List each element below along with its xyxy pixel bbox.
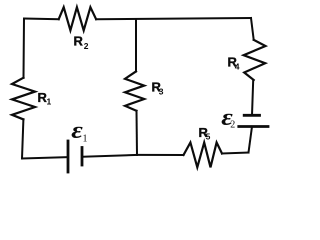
resistor R5 bbox=[184, 143, 223, 168]
battery E2 short plate bbox=[244, 114, 259, 117]
wire middle vertical lower bbox=[136, 111, 139, 155]
resistor R4 bbox=[244, 40, 266, 80]
node bottom middle junction bbox=[137, 154, 184, 156]
label R3 bbox=[152, 80, 164, 97]
wire bottom-right segment bbox=[222, 153, 249, 154]
node top middle junction bbox=[135, 19, 137, 71]
wire bottom-left segment bbox=[22, 157, 67, 158]
resistor R2 bbox=[59, 7, 96, 30]
svg-text:2: 2 bbox=[230, 120, 235, 131]
wire left vertical upper bbox=[23, 19, 26, 78]
svg-text:1: 1 bbox=[83, 133, 88, 144]
label R1 bbox=[38, 90, 52, 107]
svg-text:4: 4 bbox=[235, 61, 240, 71]
svg-text:R: R bbox=[74, 34, 84, 49]
svg-text:5: 5 bbox=[206, 131, 211, 141]
resistor R3 bbox=[125, 71, 144, 110]
battery E1 short plate bbox=[81, 148, 84, 166]
label E1 (emf 1) bbox=[71, 117, 87, 145]
svg-text:3: 3 bbox=[159, 86, 164, 96]
wire top-left segment bbox=[24, 18, 59, 21]
label R2 bbox=[74, 34, 89, 52]
battery E1 long plate bbox=[67, 141, 70, 172]
label R4 bbox=[228, 55, 240, 72]
svg-text:2: 2 bbox=[84, 41, 89, 51]
wire right vertical below E2 bbox=[249, 127, 253, 153]
wire top-right segment bbox=[96, 18, 251, 19]
wire left vertical lower bbox=[22, 119, 23, 158]
resistor R1 bbox=[12, 78, 35, 120]
battery E2 long plate bbox=[239, 125, 268, 128]
svg-text:1: 1 bbox=[47, 96, 52, 106]
wire right vertical upper bbox=[251, 18, 254, 40]
svg-text:ε: ε bbox=[71, 117, 83, 144]
wire E1 to bottom node bbox=[83, 155, 137, 157]
wire E2 to R4 bbox=[252, 80, 253, 115]
label E2 (emf 2) bbox=[221, 103, 235, 131]
label R5 bbox=[199, 125, 211, 142]
